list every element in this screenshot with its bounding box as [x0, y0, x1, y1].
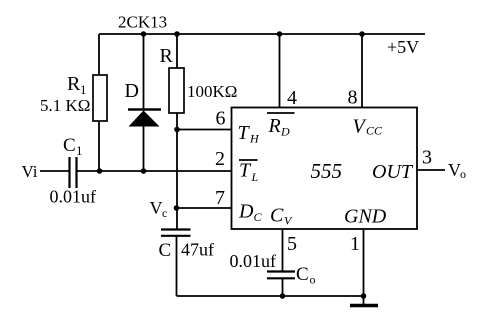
node Vc junction	[174, 205, 180, 211]
pin label VCC	[353, 116, 384, 138]
svg-text:T: T	[238, 122, 251, 144]
pin number 2	[215, 148, 225, 170]
pin label RD overline	[267, 112, 295, 114]
node junction pin8 top	[359, 31, 365, 37]
pin label RD	[268, 115, 291, 139]
svg-text:3: 3	[422, 147, 432, 169]
label C1	[63, 135, 83, 158]
label 5.1 KΩ	[40, 96, 90, 115]
pin number 1	[350, 233, 360, 255]
pin label OUT	[372, 161, 414, 183]
label +5V	[387, 37, 419, 57]
pin number 7	[215, 187, 225, 209]
label D	[125, 80, 139, 102]
wire R bottom down through Vc node to capacitor C	[176, 113, 178, 229]
label 100KΩ	[187, 82, 237, 101]
svg-text:+5V: +5V	[387, 37, 419, 57]
svg-text:47uf: 47uf	[181, 240, 214, 260]
svg-text:8: 8	[348, 87, 358, 109]
node junction R1 bottom	[97, 168, 103, 174]
pin label TL overline	[239, 159, 258, 161]
svg-text:100KΩ: 100KΩ	[187, 82, 237, 101]
wire R1 bottom to input node	[98, 121, 100, 171]
svg-text:7: 7	[215, 187, 225, 209]
wire top +5V rail	[99, 33, 425, 35]
pin label GND	[344, 206, 387, 228]
label 0.01uf for C0	[230, 251, 277, 271]
wire pin 8	[361, 34, 363, 108]
svg-text:OUT: OUT	[372, 161, 414, 183]
node junction pin4 top	[277, 31, 283, 37]
svg-text:4: 4	[287, 87, 297, 109]
label Vi	[22, 162, 38, 181]
capacitor C plates	[161, 230, 191, 236]
svg-text:C: C	[270, 205, 284, 227]
svg-text:C: C	[296, 264, 309, 285]
svg-text:V: V	[150, 198, 163, 218]
pin label DC	[238, 201, 263, 225]
wire C bottom to ground rail	[176, 237, 178, 297]
resistor R	[169, 68, 184, 113]
wire Vi to C1	[40, 170, 69, 172]
svg-text:555: 555	[311, 159, 343, 183]
wire diode anode down to input wire	[143, 126, 145, 171]
ground symbol	[350, 304, 378, 307]
wire top rail down to R	[176, 34, 178, 68]
capacitor C0 plates	[267, 272, 295, 279]
svg-text:GND: GND	[344, 206, 387, 228]
pin label CV	[270, 205, 293, 228]
pin number 3	[422, 147, 432, 169]
svg-text:0.01uf: 0.01uf	[230, 251, 277, 271]
svg-text:CC: CC	[366, 124, 383, 138]
pin number 4	[287, 87, 297, 109]
svg-text:5: 5	[287, 233, 297, 255]
wire pin 5 to C0	[282, 229, 284, 271]
svg-text:2CK13: 2CK13	[118, 13, 167, 32]
label 0.01uf	[50, 187, 97, 207]
svg-text:1: 1	[350, 233, 360, 255]
wire pin 3 output	[417, 169, 445, 171]
label 47uf	[181, 240, 214, 260]
node junction R top	[174, 31, 180, 37]
svg-text:T: T	[239, 160, 252, 182]
label R1	[67, 73, 87, 97]
svg-text:c: c	[162, 206, 167, 220]
node junction diode top	[141, 31, 147, 37]
pin number 8	[348, 87, 358, 109]
label Vo	[448, 160, 466, 181]
node junction C0 ground rail	[280, 293, 286, 299]
svg-text:1: 1	[80, 82, 87, 97]
wire C1 to pin 2	[77, 170, 232, 172]
svg-text:D: D	[238, 201, 254, 223]
svg-text:C: C	[254, 210, 263, 224]
resistor R1	[93, 75, 107, 121]
svg-text:C: C	[159, 240, 172, 261]
diode D triangle	[129, 111, 160, 127]
svg-text:5.1 KΩ: 5.1 KΩ	[40, 96, 90, 115]
svg-text:C: C	[63, 135, 76, 156]
wire C0 bottom to ground rail	[282, 279, 284, 297]
pin number 5	[287, 233, 297, 255]
svg-text:H: H	[249, 132, 260, 146]
diode D 2CK13 cathode bar	[128, 108, 161, 111]
svg-text:2: 2	[215, 148, 225, 170]
pin label TH	[238, 122, 261, 146]
wire pin 1 down	[363, 229, 365, 304]
svg-text:L: L	[251, 170, 259, 184]
label 555	[311, 159, 343, 183]
svg-text:6: 6	[216, 108, 226, 130]
label R	[160, 45, 174, 67]
svg-text:0.01uf: 0.01uf	[50, 187, 97, 207]
node junction pin1 ground rail	[361, 293, 367, 299]
IC U1 555 timer body	[232, 108, 418, 230]
wire pin 7	[177, 207, 232, 209]
wire from top rail down to R1	[98, 34, 100, 75]
svg-text:R: R	[160, 45, 174, 67]
label 2CK13	[118, 13, 167, 32]
label Vc	[150, 198, 168, 220]
wire top rail down to diode	[143, 34, 145, 109]
node junction R bottom pin6	[174, 127, 180, 133]
svg-text:D: D	[125, 80, 139, 102]
svg-text:D: D	[280, 125, 290, 139]
svg-text:1: 1	[76, 143, 83, 158]
svg-text:Vi: Vi	[22, 162, 38, 181]
capacitor C1 plates	[70, 157, 77, 188]
svg-text:R: R	[268, 115, 281, 137]
label C0	[296, 264, 316, 287]
label C	[159, 240, 172, 261]
wire pin 6	[177, 129, 232, 131]
node junction diode anode	[141, 168, 147, 174]
wire pin 4	[279, 34, 281, 108]
svg-text:R: R	[67, 73, 81, 95]
pin number 6	[216, 108, 226, 130]
wire bottom ground rail	[177, 295, 364, 297]
svg-text:o: o	[310, 273, 316, 287]
pin label TL	[239, 160, 259, 185]
svg-text:o: o	[460, 167, 466, 181]
